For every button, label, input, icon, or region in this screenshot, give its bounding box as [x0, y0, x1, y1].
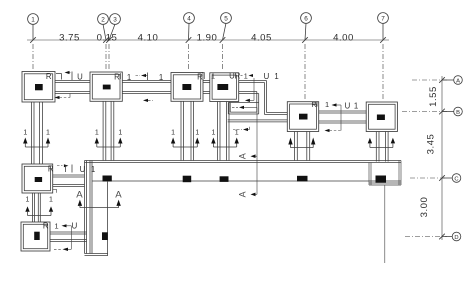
svg-text:R: R [114, 73, 120, 82]
svg-text:1: 1 [23, 130, 27, 137]
svg-text:1.55: 1.55 [428, 86, 439, 107]
svg-text:R: R [311, 100, 316, 109]
svg-text:U: U [264, 72, 270, 81]
svg-text:7: 7 [381, 15, 385, 22]
svg-text:6: 6 [304, 15, 308, 22]
svg-text:U: U [80, 165, 86, 174]
svg-text:R: R [235, 72, 241, 81]
svg-text:4.05: 4.05 [251, 32, 272, 43]
svg-text:1: 1 [274, 72, 278, 81]
svg-text:1: 1 [159, 73, 163, 82]
svg-text:1: 1 [127, 73, 131, 82]
svg-text:A: A [76, 190, 83, 201]
svg-text:U: U [72, 222, 78, 231]
svg-text:4: 4 [187, 15, 191, 22]
svg-text:1: 1 [95, 130, 99, 137]
svg-text:1: 1 [31, 16, 35, 23]
svg-text:3.00: 3.00 [419, 197, 430, 218]
svg-text:1: 1 [235, 130, 239, 137]
svg-text:1: 1 [46, 130, 50, 137]
svg-text:A: A [238, 191, 248, 197]
svg-text:C: C [454, 176, 458, 182]
svg-text:1: 1 [55, 221, 59, 230]
svg-text:1: 1 [118, 130, 122, 137]
svg-text:R: R [43, 221, 49, 230]
svg-text:3.45: 3.45 [426, 134, 437, 155]
svg-text:3.75: 3.75 [59, 32, 80, 43]
svg-text:B: B [456, 110, 460, 116]
svg-text:R: R [46, 72, 52, 81]
svg-text:1: 1 [211, 72, 215, 81]
svg-text:U: U [77, 73, 83, 82]
svg-text:1: 1 [195, 130, 199, 137]
svg-text:1: 1 [91, 165, 95, 174]
svg-text:R: R [197, 73, 203, 82]
svg-text:A: A [115, 190, 122, 201]
svg-text:1: 1 [49, 197, 53, 204]
svg-text:4.00: 4.00 [333, 32, 354, 43]
svg-text:1: 1 [354, 102, 358, 111]
svg-text:A: A [238, 153, 248, 159]
svg-text:2: 2 [101, 16, 105, 23]
svg-text:D: D [454, 235, 458, 241]
svg-text:A: A [456, 78, 460, 84]
svg-text:1.90: 1.90 [197, 32, 218, 43]
svg-text:1: 1 [211, 130, 215, 137]
svg-text:0.15: 0.15 [97, 32, 118, 43]
svg-text:5: 5 [224, 15, 228, 22]
svg-text:1: 1 [26, 197, 30, 204]
svg-text:1: 1 [325, 100, 329, 109]
svg-text:U: U [345, 102, 351, 111]
svg-text:1: 1 [171, 130, 175, 137]
svg-text:1: 1 [244, 72, 248, 81]
svg-text:R: R [48, 165, 54, 174]
svg-text:3: 3 [113, 16, 117, 23]
svg-text:4.10: 4.10 [138, 32, 159, 43]
